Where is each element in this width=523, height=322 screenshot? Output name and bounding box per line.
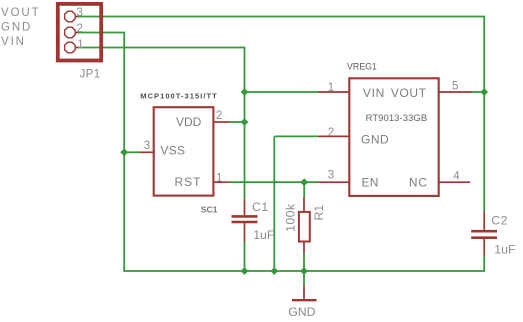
svg-text:VIN: VIN	[363, 86, 385, 100]
svg-text:3: 3	[77, 7, 83, 19]
svg-text:RST: RST	[175, 175, 202, 189]
svg-text:3: 3	[328, 170, 334, 182]
svg-text:EN: EN	[362, 175, 379, 189]
svg-text:VREG1: VREG1	[347, 62, 377, 72]
svg-text:NC: NC	[409, 176, 428, 190]
svg-text:RT9013-33GB: RT9013-33GB	[366, 113, 428, 124]
svg-text:GND: GND	[1, 21, 32, 33]
svg-text:2: 2	[328, 127, 334, 139]
svg-text:VOUT: VOUT	[391, 86, 427, 100]
svg-text:1: 1	[216, 173, 222, 185]
svg-text:VOUT: VOUT	[1, 7, 41, 19]
svg-text:1: 1	[328, 82, 334, 94]
svg-text:3: 3	[144, 140, 150, 152]
svg-text:R1: R1	[312, 205, 326, 221]
svg-text:4: 4	[453, 171, 460, 183]
svg-text:JP1: JP1	[80, 69, 101, 81]
svg-text:VIN: VIN	[1, 36, 26, 48]
svg-text:1uF: 1uF	[253, 228, 275, 242]
svg-text:C1: C1	[252, 200, 269, 214]
svg-text:5: 5	[452, 80, 458, 92]
svg-text:C2: C2	[491, 213, 508, 227]
svg-text:VDD: VDD	[176, 115, 202, 129]
svg-text:GND: GND	[288, 305, 315, 319]
svg-text:1: 1	[77, 39, 83, 51]
svg-text:GND: GND	[361, 133, 389, 147]
svg-text:VSS: VSS	[160, 144, 185, 158]
svg-text:2: 2	[77, 23, 83, 35]
svg-text:1uF: 1uF	[494, 242, 516, 256]
svg-text:2: 2	[216, 110, 222, 122]
svg-text:MCP100T-315I/TT: MCP100T-315I/TT	[140, 92, 217, 101]
svg-text:SC1: SC1	[201, 204, 218, 214]
svg-text:100k: 100k	[284, 203, 298, 232]
